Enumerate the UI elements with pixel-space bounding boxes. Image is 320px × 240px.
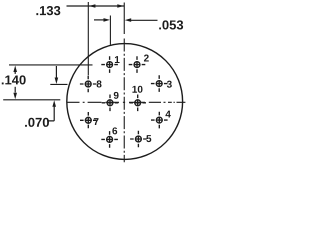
dim .053 leader to text (131, 19, 158, 21)
pin contact P10 (129, 95, 146, 112)
dim .140 upper arrow shaft (14, 72, 16, 74)
pin number label 3 (167, 81, 172, 88)
pin contact P8 (80, 76, 97, 93)
pin number label 2 (144, 55, 149, 62)
arrowhead .133 left (points left at x=88.4) (89, 4, 96, 8)
pin number label 9 (114, 92, 119, 99)
vertical centerline (123, 3, 125, 163)
arrowhead .140 bottom (points down at y=99.7) (13, 93, 17, 100)
dim .053 dimension line left part (94, 19, 104, 21)
arrowhead .053 right (points left at x=124.4) (125, 18, 132, 22)
pin number label 8 (97, 80, 102, 87)
dimension text .070 (25, 118, 49, 127)
pin contact P7 (80, 112, 97, 128)
pin number label 10 (132, 86, 142, 93)
pin number label 7 (94, 118, 99, 125)
arrowhead .070 top (points down at y=84.3) (55, 78, 59, 85)
dim .133 extension line at pin8 column (87, 2, 89, 75)
dimension text .140 (2, 75, 26, 84)
pin contact P6 (101, 131, 118, 148)
pin contact P9 (102, 95, 119, 112)
horizontal centerline (67, 101, 186, 103)
connector shell outline circle (67, 44, 183, 160)
pin number label 6 (112, 127, 117, 134)
dim .070 upper arrow shaft (hangs from pin1-row line) (55, 66, 57, 78)
dimension text .133 (36, 6, 60, 15)
arrowhead .133 right (points right at x=124.3) (117, 4, 124, 8)
pin number label 1 (115, 56, 120, 63)
arrowhead .070 bottom (points up at y=99.8) (52, 100, 56, 107)
pin contact P1 (101, 56, 118, 73)
pin number label 5 (146, 135, 151, 142)
pin contact P4 (151, 112, 168, 129)
dim .133 dimension line (67, 5, 125, 7)
pin contact P2 (129, 56, 146, 73)
arrowhead .140 top (points up at y=65) (13, 66, 17, 73)
arrowhead .053 left (points right at x=110.4) (104, 18, 111, 22)
pin contact P5 (130, 131, 147, 148)
pin number label 4 (165, 111, 170, 118)
dim .140 extension line at pin1/2 row (9, 64, 93, 66)
dimension text .053 (159, 20, 183, 29)
pin8-row short extension line (50, 83, 67, 85)
dim .053 extension line at pin1 column (109, 16, 111, 45)
pin contact P3 (151, 75, 168, 92)
center-row extension line (left) (3, 99, 60, 101)
dim .070 lower arrow shaft and hook to text (47, 106, 54, 121)
dim .140 lower arrow shaft (14, 87, 16, 93)
